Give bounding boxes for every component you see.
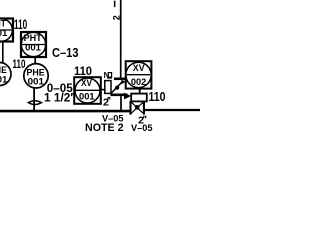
svg-text:001: 001 [0,75,8,86]
pipe label 2" (rotated) [111,1,121,21]
svg-text:110: 110 [149,90,166,104]
svg-text:XV: XV [81,78,92,88]
main process line (right) [144,109,200,111]
valve actuator box [131,94,147,102]
signal line from top [120,0,122,78]
3-way valve bottom port bar [111,94,128,97]
wire square to PHE circle (left clipped) [2,42,4,64]
svg-text:001: 001 [0,28,8,39]
3-way flow diagonal with ball [111,82,122,93]
arrow into actuator [124,93,131,100]
instrument PHT/001 (square with circle) [21,32,46,57]
vent line to main pipe [120,96,122,111]
3-way valve top port bar [114,78,126,81]
svg-text:C–13: C–13 [52,45,79,60]
wire XV001 to solenoid coil [101,89,105,91]
svg-text:001: 001 [28,77,45,88]
instrument PHT/001 (clipped square+circle, left edge) [0,19,13,42]
valve V-05 body (ball valve on main line) [131,101,144,115]
instrument PHE/001 (circle) [24,64,48,88]
electrode lens fitting on dip line [28,101,41,105]
svg-text:XV: XV [133,63,145,73]
svg-text:2: 2 [111,15,121,20]
svg-text:110: 110 [74,64,92,78]
wire PHE circle to main line [33,88,35,111]
label N-box (fail position) [104,71,112,80]
solenoid coil body [105,81,111,94]
svg-text:110: 110 [14,16,27,32]
solenoid valve XV/002 (square with circle) [126,61,152,88]
instrument PHE/001 (clipped circle, left edge) [0,63,11,86]
svg-text:002: 002 [131,77,146,88]
svg-text:001: 001 [79,91,95,102]
svg-text:110: 110 [13,59,26,71]
solenoid pilot XV/001 (square with circle) [74,77,101,104]
wire XV002 to actuator [139,89,141,94]
svg-text:NOTE 2: NOTE 2 [85,122,124,134]
main process line (left) [0,110,131,113]
arrow into XV002 [121,80,125,85]
svg-text:001: 001 [25,43,42,54]
wire PHT box to PHE circle [34,57,36,64]
svg-text:V–05: V–05 [131,123,153,134]
svg-text:1 1/2″: 1 1/2″ [44,92,76,104]
